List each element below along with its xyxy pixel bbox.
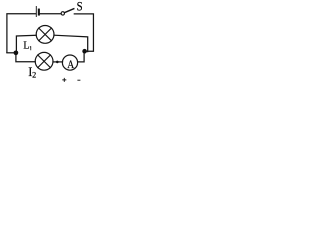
battery short thick plate (-) bbox=[38, 10, 40, 15]
wire top-left: battery to left corner and down left side bbox=[7, 14, 36, 53]
minus sign bbox=[77, 79, 80, 81]
svg-text:A: A bbox=[67, 58, 74, 71]
junction dot right bbox=[82, 49, 87, 54]
wire from node dot up to L1 branch bbox=[16, 35, 36, 53]
wire switch to top-right corner and down right side into node bbox=[74, 14, 93, 51]
wire battery to switch bbox=[40, 13, 61, 15]
plus sign bbox=[62, 78, 66, 82]
ammeter circle bbox=[62, 55, 77, 70]
battery long plate (+) bbox=[35, 7, 37, 17]
wire left junction horizontal bbox=[7, 52, 16, 54]
wire L2 to ammeter bbox=[53, 61, 63, 63]
svg-text:L: L bbox=[23, 41, 29, 52]
switch pivot circle bbox=[61, 12, 64, 15]
wire from node dot down to L2 branch bbox=[16, 53, 35, 62]
junction dot left bbox=[14, 50, 19, 55]
wire node down to ammeter right terminal bbox=[78, 51, 84, 62]
switch blade bbox=[64, 9, 73, 13]
svg-text:S: S bbox=[77, 0, 83, 14]
small dot between L2 and ammeter bbox=[56, 61, 59, 64]
svg-text:2: 2 bbox=[32, 70, 36, 79]
wire L1 to right corner down to node bbox=[54, 35, 88, 51]
lamp L2 cross bbox=[38, 55, 51, 68]
lamp L2 circle bbox=[35, 52, 53, 70]
lamp L1 cross bbox=[39, 28, 52, 41]
lamp L1 circle bbox=[36, 26, 54, 44]
